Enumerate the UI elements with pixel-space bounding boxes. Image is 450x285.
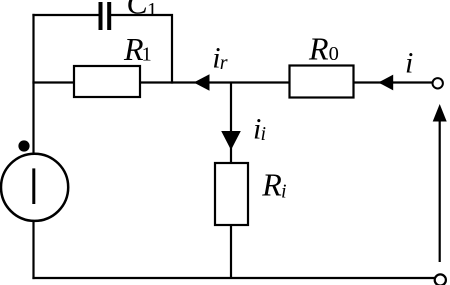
svg-text:1: 1 [147,0,157,21]
wire top-left horizontal [32,14,99,16]
arrow i_r [194,74,210,90]
wire left vertical upper [32,14,34,155]
wire bottom horizontal [32,277,434,279]
arrow i_i [221,131,241,150]
terminal bottom-right [435,274,446,285]
wire Ri top vertical [230,83,232,164]
label R1 [123,31,152,67]
label C1 [127,0,158,21]
label R0 [308,30,339,66]
label i_i [253,113,266,146]
svg-text:i: i [405,47,413,80]
node dot [18,140,29,151]
wire top-right horizontal and corner down [111,15,173,84]
wire middle horizontal segment 3 [354,81,433,83]
label i_r [212,41,228,74]
arrow i [378,75,393,91]
wire middle horizontal segment 1 [32,81,74,83]
capacitor C1 [101,2,110,30]
wire middle horizontal segment 2 [140,81,290,83]
terminal top-right [433,78,443,88]
arrow u (up) [433,104,447,122]
svg-text:R: R [308,30,329,66]
wire left vertical lower [32,220,34,279]
svg-text:r: r [220,52,228,74]
svg-text:1: 1 [142,43,152,65]
current source [1,154,68,221]
label Ri [261,166,286,202]
svg-text:i: i [281,181,287,203]
wire Ri bottom vertical [230,225,232,278]
wire right vertical (voltage arrow shaft) [439,121,441,262]
svg-text:R: R [261,166,282,202]
svg-text:0: 0 [329,43,339,65]
resistor R1 [74,66,140,97]
resistor Ri [215,163,248,225]
svg-text:C: C [127,0,149,21]
resistor R0 [290,66,354,98]
svg-text:i: i [261,123,267,145]
